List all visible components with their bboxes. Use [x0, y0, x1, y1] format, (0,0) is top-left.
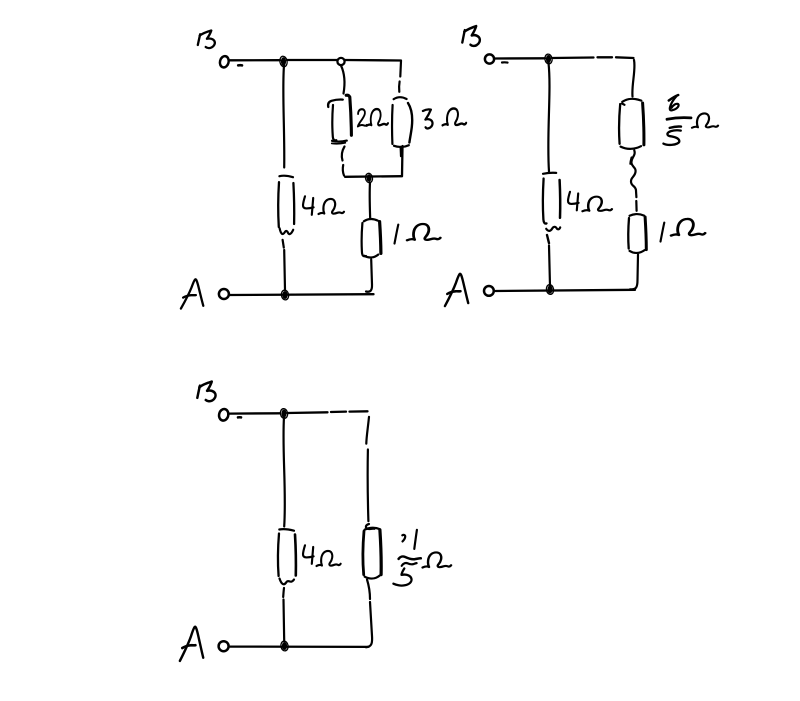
- resistor 2-ohm R2 (circuit 1): [328, 100, 343, 107]
- wire corner down to resistor R3 (circuit 1): [399, 61, 402, 77]
- label 2-ohm (circuit 1): [358, 109, 367, 126]
- wire terminal B to junction (circuit 1): [230, 59, 281, 61]
- junction dot top (circuit 2): [546, 55, 551, 63]
- label 3-ohm (circuit 1): [423, 109, 433, 128]
- resistor 4-ohm (circuit 2): [543, 173, 556, 174]
- resistor 1-ohm R4 (circuit 1): [364, 219, 378, 221]
- label 1-ohm (circuit 2): [661, 223, 665, 242]
- label 4-ohm (circuit 3): [303, 545, 314, 564]
- terminal A (circuit 2): [484, 286, 494, 296]
- label 6/5-ohm (circuit 2): [669, 95, 678, 101]
- wire resistor to bottom (circuit 3): [367, 580, 370, 600]
- resistor 3-ohm R3 (circuit 1): [391, 105, 394, 144]
- wire junction down to resistor 4-ohm (circuit 3): [283, 417, 284, 527]
- resistor 11/5-ohm (circuit 3): [366, 524, 374, 529]
- node label A (circuit 1): [181, 279, 203, 308]
- wire terminal B to junction (circuit 3): [230, 412, 281, 415]
- wire between resistors kinked (circuit 2): [631, 151, 636, 198]
- node label B (circuit 1): [198, 31, 215, 49]
- wire junction down to resistor R1 (circuit 1): [283, 66, 284, 168]
- terminal B (circuit 3): [218, 408, 229, 421]
- terminal A (circuit 1): [219, 289, 229, 299]
- label 4-ohm (circuit 1): [303, 196, 314, 215]
- junction dot bottom (circuit 2): [547, 286, 552, 294]
- wire corner down to resistor (circuit 2): [632, 60, 634, 97]
- junction dot bottom (circuit 1): [282, 291, 287, 299]
- wire bottom A rail (circuit 2): [496, 290, 636, 291]
- wire resistor 4-ohm to bottom (circuit 2): [549, 246, 550, 287]
- wire bottom A rail (circuit 1): [230, 293, 374, 296]
- wire junction to resistor R4 (circuit 1): [369, 183, 372, 220]
- resistor 4-ohm R1 (circuit 1): [279, 176, 293, 178]
- junction dot top-left (circuit 1): [281, 57, 286, 66]
- label 1-ohm (circuit 1): [395, 225, 399, 244]
- wire right branch long (circuit 3): [366, 417, 369, 444]
- label 4-ohm (circuit 2): [568, 192, 579, 211]
- resistor 6/5-ohm (circuit 2): [622, 99, 641, 102]
- resistor 4-ohm (circuit 3): [279, 529, 294, 531]
- wire resistor to bottom hook (circuit 2): [630, 255, 638, 290]
- terminal B (circuit 1): [219, 55, 230, 68]
- wire top rail with pen lifts (circuit 3): [288, 411, 328, 414]
- wire bottom A rail (circuit 3): [230, 645, 368, 648]
- wire node down to resistor R2 (circuit 1): [341, 66, 344, 94]
- node label B (circuit 3): [197, 382, 215, 402]
- wire node to corner (circuit 1 top right): [345, 59, 401, 62]
- node at 2-ohm branch (circuit 1): [337, 58, 344, 65]
- node label A (circuit 3): [180, 627, 203, 661]
- wire resistor R1 to bottom junction (circuit 1): [283, 250, 286, 290]
- wire resistor 4-ohm to bottom junction (circuit 3): [282, 600, 285, 642]
- node label B (circuit 2): [462, 26, 480, 46]
- junction dot top (circuit 3): [281, 410, 286, 418]
- label 11/5-ohm (circuit 3): [402, 535, 405, 542]
- terminal A (circuit 3): [219, 641, 229, 651]
- node label A (circuit 2): [445, 274, 468, 306]
- junction dot middle (circuit 1): [367, 174, 372, 182]
- wire bottom of parallel pair (circuit 1): [401, 146, 404, 176]
- wire top rail with pen lifts (circuit 2): [552, 56, 594, 59]
- resistor 1-ohm (circuit 2): [630, 214, 645, 216]
- wire junction down to resistor 4-ohm (circuit 2): [548, 63, 549, 172]
- wire resistor R4 to bottom (circuit 1): [366, 260, 372, 292]
- terminal B (circuit 2): [485, 54, 494, 63]
- wire terminal B to junction (circuit 2): [495, 57, 546, 60]
- wire junction to node (circuit 1): [287, 59, 337, 61]
- junction dot bottom (circuit 3): [282, 642, 287, 650]
